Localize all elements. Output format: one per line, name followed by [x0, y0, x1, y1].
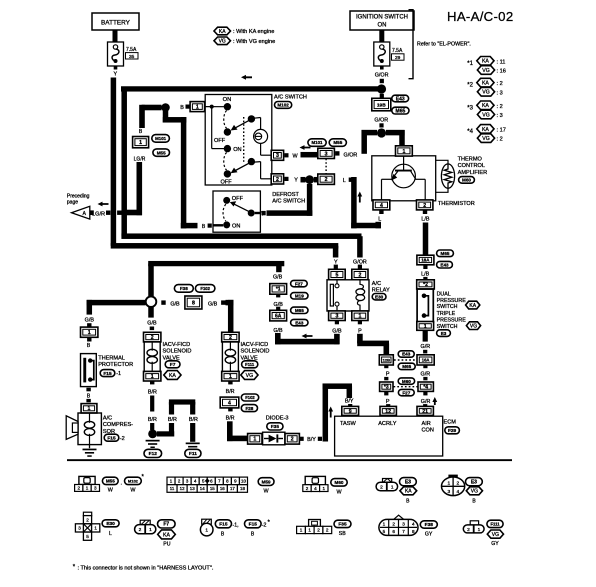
- svg-text:KA: KA: [469, 303, 476, 309]
- svg-text:19B: 19B: [377, 102, 386, 108]
- svg-text:G/R: G/R: [421, 371, 431, 377]
- svg-text:*4: *4: [467, 129, 473, 135]
- svg-text:18: 18: [240, 486, 245, 491]
- svg-text:HA-A/C-02: HA-A/C-02: [447, 9, 513, 24]
- svg-text:: With KA engine: : With KA engine: [233, 29, 274, 35]
- svg-text:B/R: B/R: [226, 389, 235, 395]
- svg-text:L: L: [378, 217, 381, 223]
- svg-text:L: L: [343, 178, 346, 184]
- svg-text:1: 1: [424, 324, 427, 330]
- svg-text:F111: F111: [490, 521, 500, 526]
- svg-text:*2: *2: [467, 83, 473, 89]
- svg-text:ECM: ECM: [444, 420, 457, 426]
- svg-text:VG: VG: [482, 68, 490, 74]
- svg-text:2: 2: [380, 485, 383, 491]
- svg-text:M55: M55: [157, 150, 166, 155]
- svg-text:12: 12: [385, 409, 391, 415]
- svg-text:3: 3: [94, 486, 97, 491]
- svg-text:1: 1: [478, 527, 481, 533]
- svg-text:3: 3: [402, 522, 405, 527]
- svg-text:*1: *1: [467, 61, 473, 67]
- svg-text:2: 2: [423, 203, 426, 209]
- svg-text:B/Y: B/Y: [345, 399, 354, 405]
- svg-text:2: 2: [229, 335, 232, 341]
- svg-text:TASW: TASW: [340, 421, 356, 427]
- svg-text:ON: ON: [232, 224, 240, 230]
- svg-text:CON: CON: [422, 427, 434, 433]
- svg-text:2: 2: [78, 486, 81, 491]
- svg-text:2: 2: [276, 177, 279, 183]
- svg-text:12B: 12B: [383, 357, 390, 362]
- svg-text:A/C SWITCH: A/C SWITCH: [274, 94, 307, 100]
- svg-text:L: L: [109, 531, 112, 537]
- svg-text:1: 1: [402, 149, 405, 155]
- svg-text:3: 3: [325, 151, 328, 157]
- svg-text:E30: E30: [106, 521, 115, 527]
- svg-text:1: 1: [447, 481, 450, 487]
- svg-text:F102: F102: [245, 395, 255, 400]
- svg-text:1: 1: [205, 527, 208, 533]
- svg-text:-2: -2: [120, 436, 125, 442]
- svg-text:3: 3: [447, 489, 450, 495]
- svg-text:F15: F15: [103, 371, 112, 377]
- svg-text:AIR: AIR: [422, 421, 431, 427]
- svg-text:G/OR: G/OR: [375, 72, 389, 78]
- svg-text:LG/R: LG/R: [92, 212, 105, 218]
- svg-text:1: 1: [151, 374, 154, 380]
- svg-text:F11: F11: [189, 451, 197, 457]
- svg-text:2: 2: [139, 527, 142, 533]
- svg-text:B/Y: B/Y: [307, 437, 316, 443]
- svg-text:14: 14: [200, 486, 205, 491]
- svg-text:: 2: : 2: [497, 81, 503, 87]
- svg-text:IGNITION SWITCH: IGNITION SWITCH: [356, 15, 408, 21]
- svg-text:: 17: : 17: [497, 127, 506, 133]
- svg-text:M59: M59: [262, 479, 271, 484]
- svg-text:9: 9: [349, 409, 352, 415]
- svg-text:1: 1: [229, 374, 232, 380]
- svg-text:E30: E30: [375, 294, 384, 299]
- svg-text:1: 1: [139, 140, 142, 146]
- svg-text:: 16: : 16: [497, 69, 506, 75]
- svg-text:ON: ON: [378, 22, 387, 28]
- svg-text:3: 3: [335, 314, 338, 320]
- svg-text:F27: F27: [295, 281, 303, 286]
- svg-text:CONTROL: CONTROL: [458, 163, 485, 169]
- svg-text:Y: Y: [113, 72, 117, 78]
- svg-text:W: W: [108, 488, 114, 494]
- svg-text:F15: F15: [107, 435, 116, 441]
- svg-text:G/OR: G/OR: [344, 153, 358, 159]
- svg-text:1: 1: [358, 314, 361, 320]
- svg-text:: 2: : 2: [497, 137, 503, 143]
- svg-text:OFF: OFF: [221, 179, 233, 185]
- svg-text:P: P: [358, 328, 362, 334]
- svg-text:OFF: OFF: [214, 138, 226, 144]
- svg-text:ON: ON: [223, 97, 232, 103]
- svg-text:10: 10: [241, 479, 246, 484]
- svg-text:: 3: : 3: [497, 90, 503, 96]
- svg-text:M65: M65: [402, 364, 411, 369]
- svg-text:VG: VG: [482, 136, 490, 142]
- svg-text:2: 2: [317, 528, 320, 533]
- svg-text:F29: F29: [448, 428, 457, 434]
- svg-text:3: 3: [276, 153, 279, 159]
- svg-text:8: 8: [192, 300, 195, 306]
- svg-text:DIODE-3: DIODE-3: [266, 416, 289, 422]
- svg-text:P: P: [386, 372, 390, 378]
- svg-text:PRESSURE: PRESSURE: [437, 318, 467, 324]
- svg-text:15: 15: [210, 486, 215, 491]
- svg-text:M60: M60: [402, 379, 411, 384]
- svg-text:F35: F35: [338, 522, 347, 528]
- svg-text:KA: KA: [482, 59, 489, 65]
- svg-text:LG/R: LG/R: [134, 156, 146, 162]
- svg-text:M65: M65: [396, 108, 406, 114]
- svg-text:G/B: G/B: [85, 318, 95, 324]
- svg-text:1: 1: [383, 522, 386, 527]
- svg-text:PROTECTOR: PROTECTOR: [98, 362, 133, 368]
- svg-text:KA: KA: [169, 373, 176, 379]
- svg-text:VG: VG: [246, 373, 254, 379]
- svg-text:F38: F38: [425, 522, 434, 528]
- svg-text:8: 8: [412, 529, 415, 534]
- svg-text:F12: F12: [149, 451, 158, 457]
- svg-text:17: 17: [230, 486, 235, 491]
- svg-text:E3: E3: [441, 331, 447, 336]
- svg-text:SB: SB: [339, 531, 346, 537]
- svg-text:F28: F28: [245, 406, 253, 411]
- svg-text:2: 2: [151, 335, 154, 341]
- svg-text:2: 2: [358, 272, 361, 278]
- svg-text:E43: E43: [396, 96, 405, 102]
- svg-text:*4: *4: [423, 385, 428, 391]
- svg-text:M60: M60: [335, 480, 344, 485]
- svg-text:G/B: G/B: [147, 320, 157, 326]
- svg-text:: 2: : 2: [497, 104, 503, 110]
- svg-text:1: 1: [300, 528, 303, 533]
- svg-text:DUAL: DUAL: [437, 292, 451, 298]
- svg-text:11: 11: [170, 486, 175, 491]
- svg-text:OFF: OFF: [232, 196, 244, 202]
- svg-text:KA: KA: [219, 29, 226, 35]
- svg-text:PRESSURE: PRESSURE: [437, 298, 467, 304]
- svg-text:: 11: : 11: [497, 59, 506, 65]
- svg-text:page: page: [67, 200, 78, 206]
- svg-text:F15: F15: [249, 522, 258, 528]
- svg-text:E43: E43: [402, 352, 411, 357]
- svg-text:21: 21: [422, 409, 428, 415]
- svg-text:-2: -2: [262, 522, 267, 528]
- svg-text:6: 6: [392, 529, 395, 534]
- svg-text:VG: VG: [482, 90, 490, 96]
- svg-text:4: 4: [380, 203, 383, 209]
- svg-text:G/B: G/B: [170, 301, 180, 307]
- svg-text:ON: ON: [233, 147, 241, 153]
- svg-text:G/OR: G/OR: [353, 259, 367, 265]
- svg-text:DEFROST: DEFROST: [272, 192, 299, 198]
- svg-text:KA: KA: [482, 127, 489, 133]
- svg-text:2: 2: [467, 527, 470, 533]
- svg-text:2: 2: [306, 486, 309, 491]
- svg-text:18A: 18A: [421, 258, 430, 263]
- svg-text:IACV-FICD: IACV-FICD: [163, 342, 191, 348]
- svg-text:VG: VG: [219, 39, 226, 45]
- svg-text:G/B: G/B: [273, 275, 283, 281]
- svg-text:B: B: [180, 105, 184, 111]
- svg-text:2: 2: [325, 177, 328, 183]
- svg-text:SWITCH: SWITCH: [437, 304, 458, 310]
- svg-text:KA: KA: [405, 489, 412, 495]
- svg-text:2: 2: [326, 528, 329, 533]
- svg-text:B/R: B/R: [189, 417, 198, 423]
- svg-text:E43: E43: [295, 320, 304, 325]
- svg-text:F102: F102: [200, 286, 210, 291]
- svg-text:7: 7: [402, 529, 405, 534]
- svg-text:SOLENOID: SOLENOID: [241, 349, 270, 355]
- svg-text:B/R: B/R: [226, 415, 235, 421]
- svg-text:G/R: G/R: [421, 344, 431, 350]
- svg-text:M101: M101: [312, 140, 324, 145]
- svg-text:KA: KA: [482, 81, 489, 87]
- svg-text:1: 1: [149, 527, 152, 533]
- svg-text:M55: M55: [106, 479, 115, 484]
- svg-text:B/R: B/R: [148, 389, 157, 395]
- svg-text:THERMISTOR: THERMISTOR: [438, 201, 475, 207]
- svg-text:BATTERY: BATTERY: [101, 20, 131, 27]
- svg-text:VG: VG: [471, 489, 478, 495]
- svg-text:M65: M65: [295, 308, 304, 313]
- svg-text:4: 4: [456, 489, 459, 495]
- svg-text:VG: VG: [482, 112, 490, 118]
- svg-text:ACRLY: ACRLY: [378, 421, 397, 427]
- svg-text:A: A: [82, 211, 86, 217]
- svg-text:16A: 16A: [422, 357, 430, 362]
- svg-text:4: 4: [314, 486, 317, 491]
- svg-text:F35: F35: [271, 424, 280, 430]
- svg-text:M101: M101: [155, 136, 167, 141]
- svg-text:G/B: G/B: [332, 328, 342, 334]
- svg-text:4: 4: [412, 522, 415, 527]
- svg-text:1: 1: [86, 486, 89, 491]
- svg-text:B/R: B/R: [148, 417, 157, 423]
- svg-text:1: 1: [88, 406, 91, 412]
- svg-text:COMPRES-: COMPRES-: [103, 422, 133, 428]
- svg-text:29: 29: [395, 55, 401, 61]
- svg-text:G/B: G/B: [208, 301, 218, 307]
- svg-text:GY: GY: [491, 541, 499, 547]
- svg-text:*1: *1: [276, 287, 281, 293]
- svg-text:F111: F111: [245, 362, 255, 367]
- svg-text:: With VG engine: : With VG engine: [233, 39, 275, 45]
- svg-text:VG: VG: [492, 532, 499, 538]
- svg-text:F7: F7: [170, 362, 176, 368]
- svg-text:2: 2: [456, 481, 459, 487]
- svg-text:F7: F7: [163, 522, 169, 528]
- svg-text:KA: KA: [482, 103, 489, 109]
- svg-text:2: 2: [392, 522, 395, 527]
- svg-text:B/R: B/R: [168, 417, 177, 423]
- svg-text:AMPLIFIER: AMPLIFIER: [458, 170, 488, 176]
- svg-text:G/OR: G/OR: [374, 117, 388, 123]
- svg-text:7.5A: 7.5A: [126, 47, 137, 53]
- svg-text:SWITCH: SWITCH: [437, 324, 458, 330]
- svg-text:2: 2: [86, 517, 89, 522]
- svg-text:A/C: A/C: [372, 281, 381, 287]
- svg-text:F38: F38: [180, 286, 188, 291]
- svg-text:Y: Y: [334, 259, 338, 265]
- svg-text:4: 4: [228, 400, 231, 406]
- svg-text:F27: F27: [402, 390, 410, 395]
- svg-text:35: 35: [129, 54, 135, 60]
- svg-text:M65: M65: [441, 251, 450, 256]
- svg-text:: 3: : 3: [497, 113, 503, 119]
- svg-text:1: 1: [94, 526, 97, 531]
- svg-text:-1: -1: [116, 371, 121, 377]
- svg-text:M102: M102: [277, 103, 289, 108]
- svg-text:3: 3: [78, 526, 81, 531]
- svg-text:KA: KA: [163, 532, 170, 538]
- svg-text:1: 1: [196, 105, 199, 111]
- svg-text:-1,: -1,: [233, 522, 239, 528]
- svg-text:1: 1: [253, 437, 256, 443]
- svg-text:*2: *2: [423, 282, 428, 288]
- svg-text:1: 1: [88, 330, 91, 336]
- svg-text:SOLENOID: SOLENOID: [163, 349, 192, 355]
- svg-text:16: 16: [220, 486, 225, 491]
- svg-text:THERMAL: THERMAL: [98, 356, 125, 362]
- svg-text:E3: E3: [405, 480, 411, 486]
- svg-text:13: 13: [190, 486, 195, 491]
- svg-text:PU: PU: [163, 541, 170, 547]
- svg-text:E3: E3: [471, 480, 477, 486]
- svg-text:5: 5: [383, 529, 386, 534]
- svg-text:A/C SWITCH: A/C SWITCH: [272, 199, 305, 205]
- svg-text:IACV-FICD: IACV-FICD: [241, 342, 269, 348]
- svg-text:M55: M55: [333, 140, 342, 145]
- svg-text:: This connector is not shown: : This connector is not shown in "HARNES…: [78, 565, 214, 571]
- svg-text:1: 1: [323, 486, 326, 491]
- svg-text:A/C: A/C: [103, 416, 112, 422]
- svg-text:*3: *3: [384, 385, 389, 391]
- svg-text:Y: Y: [294, 178, 298, 184]
- svg-text:2: 2: [291, 437, 294, 443]
- svg-text:M102: M102: [128, 478, 139, 483]
- svg-text:*3: *3: [467, 105, 473, 111]
- svg-text:1: 1: [308, 528, 311, 533]
- svg-text:5: 5: [86, 534, 89, 539]
- svg-text:F15: F15: [219, 522, 228, 528]
- svg-text:GY: GY: [425, 531, 433, 537]
- svg-text:Refer to "EL-POWER".: Refer to "EL-POWER".: [417, 41, 471, 47]
- svg-text:THERMO: THERMO: [458, 157, 483, 163]
- svg-text:VG: VG: [470, 323, 477, 329]
- svg-text:5: 5: [335, 272, 338, 278]
- svg-text:L/B: L/B: [421, 272, 429, 278]
- svg-text:M19: M19: [295, 294, 304, 299]
- svg-text:7.5A: 7.5A: [392, 48, 403, 54]
- svg-text:6A: 6A: [275, 313, 282, 319]
- svg-text:12: 12: [180, 486, 185, 491]
- svg-text:M60: M60: [462, 178, 471, 183]
- svg-text:1: 1: [391, 485, 394, 491]
- svg-text:TRIPLE: TRIPLE: [437, 311, 456, 317]
- svg-text:E43: E43: [440, 262, 449, 267]
- svg-text:L/B: L/B: [421, 217, 429, 223]
